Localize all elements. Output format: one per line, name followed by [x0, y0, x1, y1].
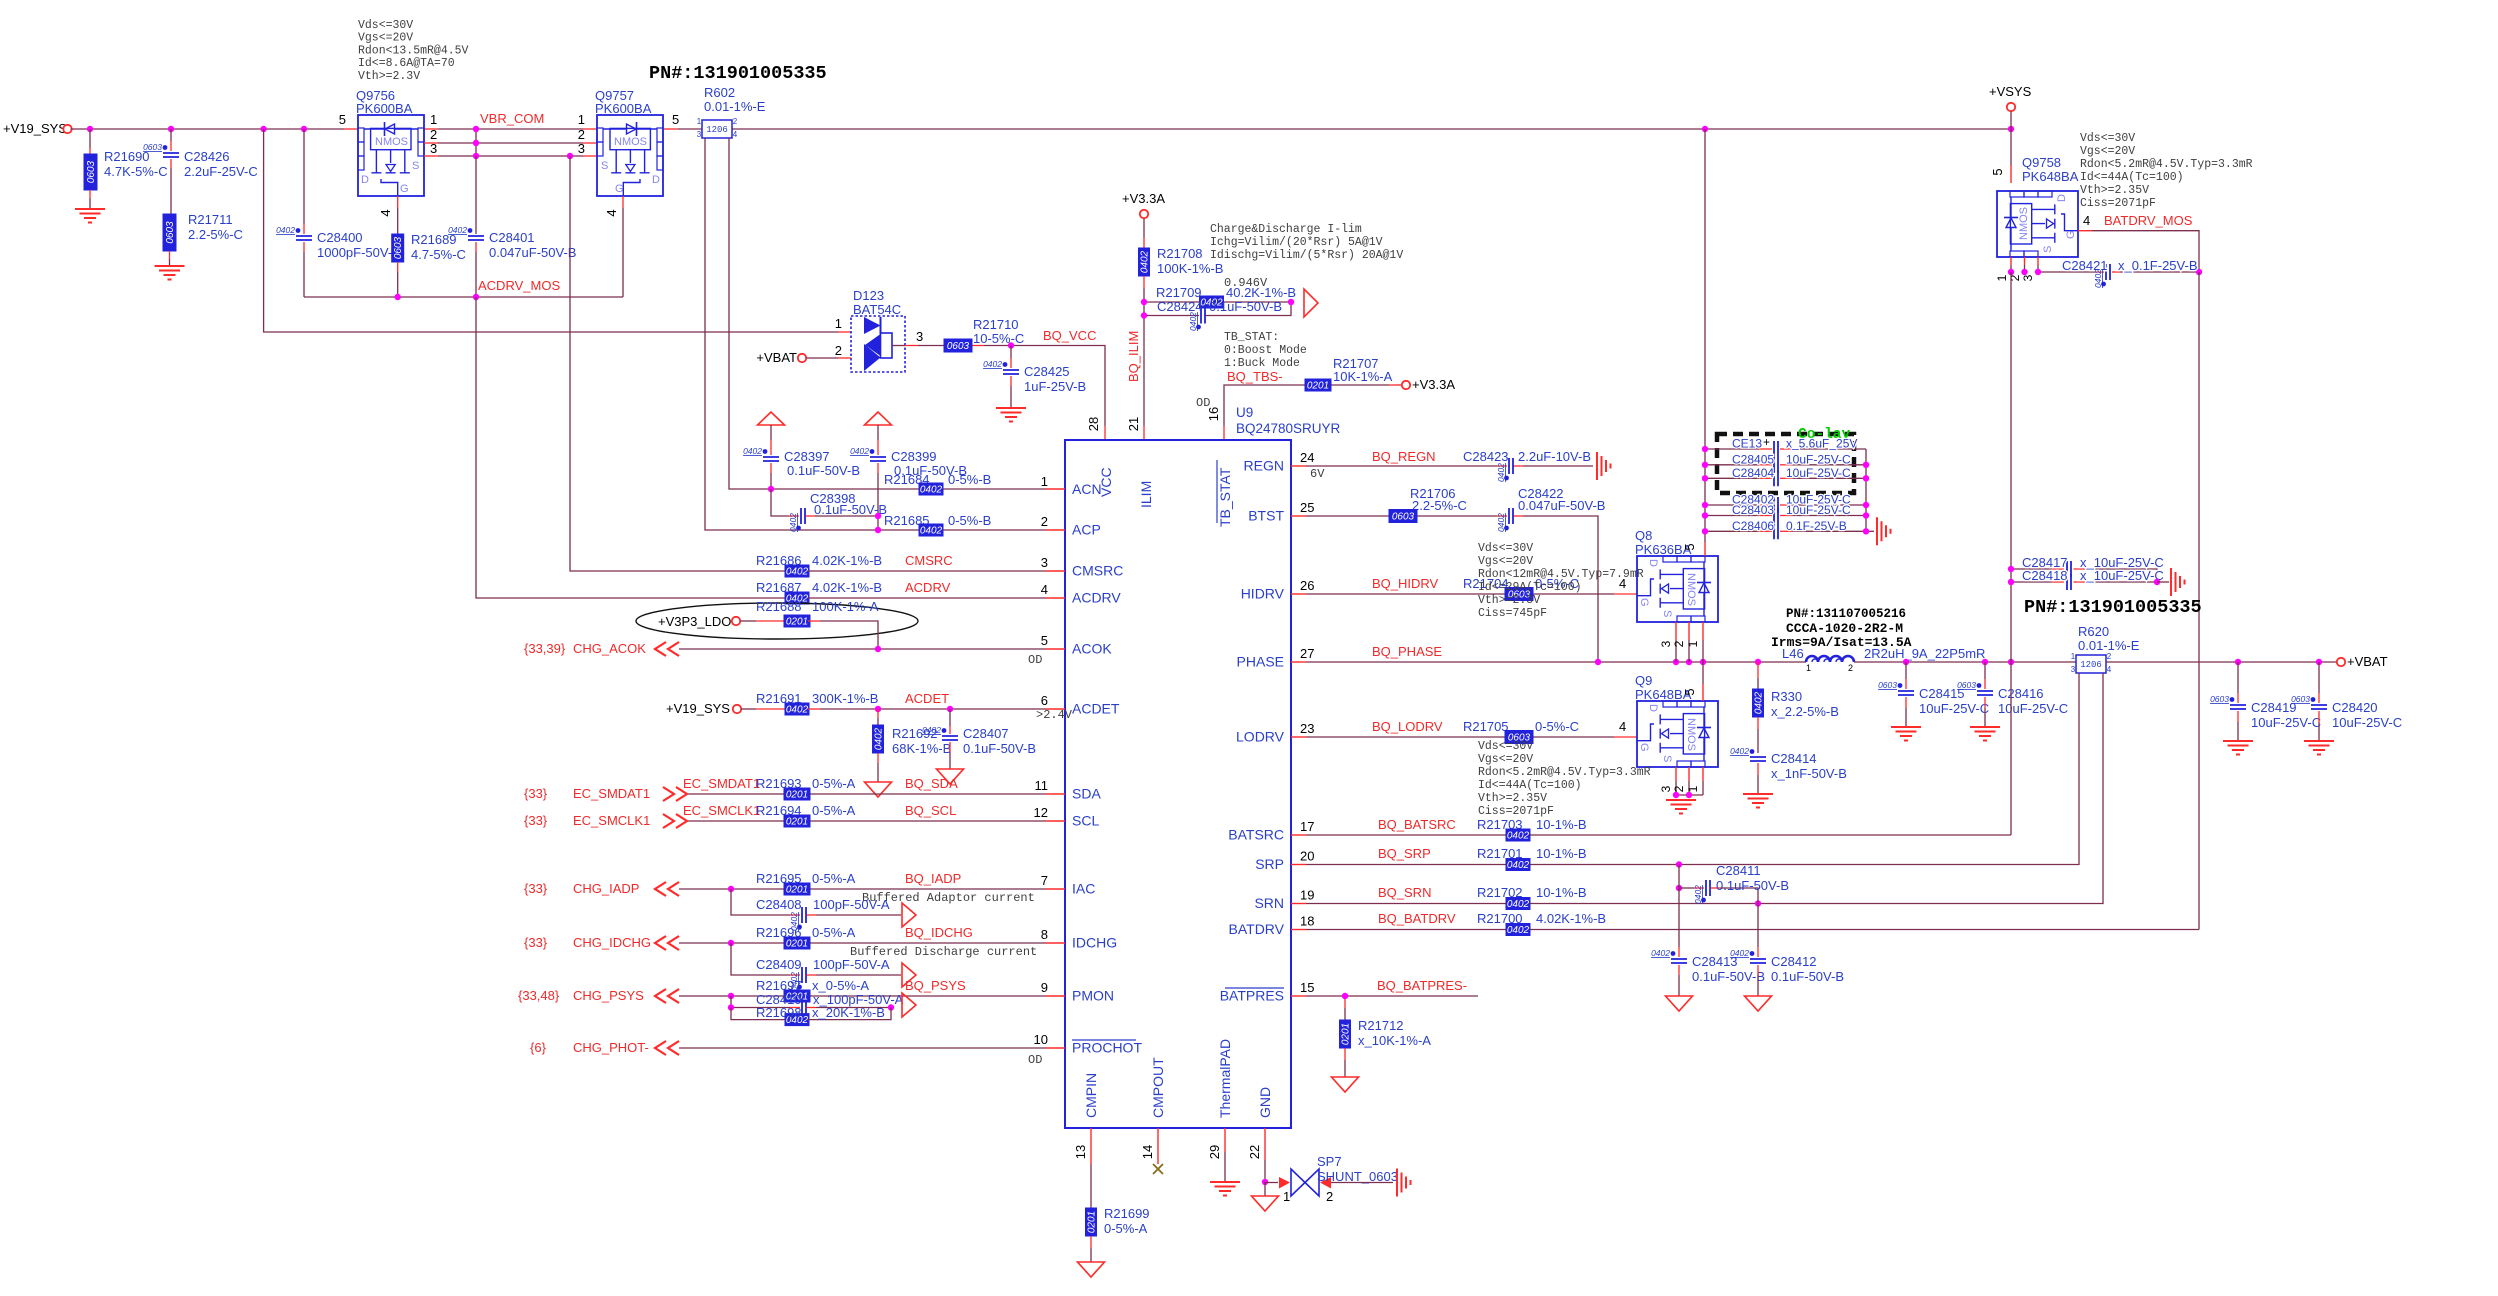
svg-text:C28407: C28407 — [963, 726, 1009, 741]
svg-text:R21709: R21709 — [1156, 285, 1202, 300]
svg-text:3: 3 — [2071, 665, 2076, 674]
svg-text:1: 1 — [1806, 663, 1811, 673]
svg-text:0603: 0603 — [86, 160, 97, 183]
svg-text:1: 1 — [835, 316, 842, 331]
svg-text:10uF-25V-C: 10uF-25V-C — [1786, 466, 1851, 480]
svg-text:1: 1 — [1686, 785, 1700, 792]
svg-text:R21712: R21712 — [1358, 1018, 1404, 1033]
svg-text:2: 2 — [2107, 652, 2112, 661]
svg-text:1: 1 — [578, 112, 585, 127]
wire CHG_ACOK to ACOK pin — [655, 642, 1046, 656]
svg-text:+V3P3_LDO: +V3P3_LDO — [658, 614, 731, 629]
svg-text:0.1uF-50V-B: 0.1uF-50V-B — [787, 463, 860, 478]
net label BQ_BATPRES- — [1377, 978, 1467, 993]
svg-text:8: 8 — [1041, 927, 1048, 942]
svg-text:CMPOUT: CMPOUT — [1150, 1057, 1166, 1118]
svg-text:0-5%-B: 0-5%-B — [948, 472, 991, 487]
arrow buffered discharge current — [902, 963, 916, 987]
svg-text:2: 2 — [1326, 1189, 1333, 1204]
wire cap bank right rail — [1866, 449, 1874, 531]
transistor spec note (Q9756/Q9757) — [358, 19, 469, 83]
capacitor C28416 — [1957, 662, 2068, 727]
svg-text:100K-1%-B: 100K-1%-B — [1157, 261, 1223, 276]
no-connect X at CMPOUT — [1153, 1128, 1163, 1174]
svg-text:OD: OD — [1028, 653, 1042, 667]
svg-text:2.2uF-10V-B: 2.2uF-10V-B — [1518, 449, 1591, 464]
svg-text:300K-1%-B: 300K-1%-B — [812, 691, 878, 706]
svg-text:9: 9 — [1041, 980, 1048, 995]
svg-text:0603: 0603 — [393, 236, 404, 259]
arrow output 0.946V node — [1304, 289, 1318, 317]
svg-text:C28412: C28412 — [1771, 954, 1817, 969]
wire +VSYS down to Q9758 — [2010, 129, 2012, 183]
resistor R21699 (CMPIN) — [1086, 1128, 1150, 1262]
capacitor C28400 — [276, 129, 401, 297]
wire BATDRV_MOS down to BATDRV row — [2198, 272, 2200, 930]
op-amp U9 BQ24780SRUYR charge controller IC body — [1065, 405, 1341, 1128]
capacitor C28404 — [1705, 466, 1866, 487]
svg-text:5: 5 — [1041, 633, 1048, 648]
capacitor C28423 — [1463, 449, 1591, 482]
resistor R21702 — [1477, 885, 1587, 910]
wire CHG_PSYS to PMON — [655, 989, 1046, 1003]
svg-text:0402: 0402 — [1754, 691, 1765, 714]
svg-text:0603: 0603 — [1957, 680, 1976, 690]
svg-text:1: 1 — [430, 112, 437, 127]
svg-text:0-5%-A: 0-5%-A — [1104, 1221, 1148, 1236]
wire R602 sense pin3 to ACP — [705, 138, 919, 530]
svg-text:PN#:131107005216: PN#:131107005216 — [1786, 607, 1906, 621]
svg-text:C28409: C28409 — [756, 957, 802, 972]
resistor R21700 — [1477, 911, 1606, 936]
junction dots C28410/R21698 — [728, 1004, 894, 1010]
capacitor C28418 — [2011, 568, 2164, 590]
svg-text:10uF-25V-C: 10uF-25V-C — [2332, 715, 2402, 730]
svg-text:C28405: C28405 — [1732, 452, 1774, 466]
net label CHG_PHOT- (off-page) — [530, 1040, 649, 1055]
arrow buffered adaptor current — [902, 903, 916, 927]
junction dots +VBAT — [2235, 659, 2322, 665]
wire TB_STAT to +V3.3A via R21707 — [1224, 385, 1402, 440]
svg-text:x_0.1F-25V-B: x_0.1F-25V-B — [2118, 258, 2198, 273]
wire R620 to +VBAT — [2106, 661, 2337, 663]
svg-text:24: 24 — [1300, 450, 1314, 465]
svg-text:100K-1%-A: 100K-1%-A — [812, 599, 879, 614]
svg-text:10-1%-B: 10-1%-B — [1536, 817, 1587, 832]
svg-text:+VSYS: +VSYS — [1989, 84, 2032, 99]
resistor R21696 — [756, 925, 856, 950]
net label BQ_VCC — [1043, 328, 1096, 343]
svg-text:0.047uF-50V-B: 0.047uF-50V-B — [1518, 498, 1605, 513]
svg-text:R21710: R21710 — [973, 317, 1019, 332]
svg-text:0603: 0603 — [2210, 694, 2229, 704]
net label BATDRV_MOS — [2104, 213, 2193, 228]
svg-text:Ciss=2071pF: Ciss=2071pF — [2080, 197, 2156, 210]
transistor spec note Q8 — [1478, 542, 1644, 620]
net label VBR_COM — [480, 111, 544, 126]
inductor L46 CCCA-1020-2R2-M — [1771, 607, 1985, 673]
resistor R21698 — [731, 1005, 891, 1026]
wire CHG_PHOT- to PROCHOT — [655, 1041, 1046, 1055]
svg-text:4: 4 — [733, 130, 738, 139]
svg-text:0402: 0402 — [1730, 948, 1749, 958]
ground below C28419 — [2223, 741, 2253, 755]
net label BQ_SRN — [1378, 885, 1431, 900]
svg-text:{33}: {33} — [524, 813, 548, 828]
svg-text:BTST: BTST — [1248, 508, 1284, 524]
svg-text:SRP: SRP — [1255, 856, 1284, 872]
svg-text:Id<=44A(Tc=100): Id<=44A(Tc=100) — [2080, 171, 2184, 184]
svg-text:x_10uF-25V-C: x_10uF-25V-C — [2080, 568, 2164, 583]
svg-text:BATPRES: BATPRES — [1220, 988, 1284, 1004]
svg-text:0201: 0201 — [786, 885, 808, 896]
svg-text:0201: 0201 — [1307, 381, 1329, 392]
svg-text:0.047uF-50V-B: 0.047uF-50V-B — [489, 245, 576, 260]
capacitor C28410 — [731, 992, 904, 1016]
wire BQ_SRP row — [1306, 864, 2030, 866]
svg-text:IDCHG: IDCHG — [1072, 935, 1117, 951]
svg-text:{6}: {6} — [530, 1040, 547, 1055]
svg-text:Vds<=30V: Vds<=30V — [2080, 132, 2135, 145]
capacitor CE13 (electrolytic) — [1705, 435, 1866, 457]
svg-text:+V19_SYS: +V19_SYS — [666, 701, 730, 716]
resistor R21687 (ACDRV) — [756, 580, 1046, 605]
resistor R21707 — [1305, 356, 1393, 392]
resistor R21710 — [944, 317, 1024, 352]
resistor R21694 — [756, 803, 856, 828]
svg-text:{33}: {33} — [524, 881, 548, 896]
svg-text:CMSRC: CMSRC — [905, 553, 953, 568]
svg-text:SDA: SDA — [1072, 786, 1101, 802]
svg-text:5: 5 — [1682, 688, 1697, 695]
svg-text:100pF-50V-A: 100pF-50V-A — [813, 957, 890, 972]
junction dots C28421 row — [2008, 269, 2202, 275]
capacitor C28414 — [1730, 746, 1847, 794]
svg-text:0402: 0402 — [1507, 925, 1530, 936]
svg-text:0402: 0402 — [448, 225, 467, 235]
ground below C28414 — [1743, 794, 1773, 808]
junction dots +V19_SYS rail — [87, 126, 2014, 132]
svg-text:1: 1 — [1995, 274, 2009, 281]
ground right of C28418 — [2171, 568, 2185, 596]
svg-text:11: 11 — [1035, 778, 1049, 793]
junction dots ACDET — [875, 706, 953, 712]
svg-text:3: 3 — [1659, 640, 1673, 647]
wire VBR source sense down to CMSRC row — [570, 156, 786, 571]
ground below R21690 — [75, 209, 105, 223]
svg-text:0402: 0402 — [1507, 831, 1530, 842]
svg-text:C28397: C28397 — [784, 449, 830, 464]
svg-text:5: 5 — [672, 112, 679, 127]
svg-text:C28424: C28424 — [1157, 299, 1203, 314]
svg-text:0-5%-A: 0-5%-A — [812, 776, 856, 791]
svg-text:14: 14 — [1140, 1145, 1155, 1159]
svg-text:{33}: {33} — [524, 935, 548, 950]
svg-text:BQ24780SRUYR: BQ24780SRUYR — [1236, 421, 1341, 436]
svg-text:+: + — [1763, 435, 1770, 449]
net label BQ_ILIM (vertical) — [1126, 331, 1141, 382]
svg-text:BQ_SRP: BQ_SRP — [1378, 846, 1431, 861]
svg-text:1uF-25V-B: 1uF-25V-B — [1024, 379, 1086, 394]
net label BQ_BATDRV — [1378, 911, 1456, 926]
svg-text:PMON: PMON — [1072, 988, 1114, 1004]
title PN#:131901005335 (right) — [2024, 597, 2202, 618]
resistor R21701 — [1477, 846, 1587, 871]
wire ACDRV_MOS down to ACDRV pin row — [476, 297, 786, 598]
svg-text:Charge&Discharge I-lim: Charge&Discharge I-lim — [1210, 223, 1362, 236]
capacitor C28403 — [1705, 503, 1866, 524]
resistor R330 — [1753, 662, 1839, 753]
svg-text:x_2.2-5%-B: x_2.2-5%-B — [1771, 704, 1839, 719]
svg-text:C28420: C28420 — [2332, 700, 2378, 715]
svg-text:C28423: C28423 — [1463, 449, 1509, 464]
svg-text:1: 1 — [1041, 474, 1048, 489]
svg-text:4.02K-1%-B: 4.02K-1%-B — [812, 580, 882, 595]
svg-text:Vgs<=20V: Vgs<=20V — [2080, 145, 2135, 158]
capacitor C28399 with power arrow — [850, 412, 967, 530]
capacitor C28421 — [2062, 258, 2198, 288]
resistor R21695 — [756, 871, 856, 896]
svg-text:23: 23 — [1300, 721, 1314, 736]
svg-text:IAC: IAC — [1072, 881, 1095, 897]
svg-text:10-1%-B: 10-1%-B — [1536, 846, 1587, 861]
svg-text:0603: 0603 — [1878, 680, 1897, 690]
svg-text:BQ_HIDRV: BQ_HIDRV — [1372, 576, 1439, 591]
svg-text:0402: 0402 — [874, 727, 885, 750]
pin number labels U9 left — [1028, 474, 1073, 1067]
net label BQ_REGN — [1372, 449, 1436, 464]
svg-text:40.2K-1%-B: 40.2K-1%-B — [1226, 285, 1296, 300]
svg-text:17: 17 — [1300, 819, 1314, 834]
svg-text:3: 3 — [697, 130, 702, 139]
svg-text:100pF-50V-A: 100pF-50V-A — [813, 897, 890, 912]
wire +VSYS rail down to cap bank and Q8 drain — [1704, 129, 1706, 556]
capacitor C28397 with power arrow — [743, 412, 860, 489]
svg-text:C28419: C28419 — [2251, 700, 2297, 715]
svg-text:OD: OD — [1028, 1053, 1042, 1067]
wire CHG_IADP to IAC — [655, 882, 1046, 896]
svg-text:BQ_SRN: BQ_SRN — [1378, 885, 1431, 900]
resistor R21709 — [1144, 285, 1296, 309]
svg-text:Q8: Q8 — [1635, 528, 1652, 543]
svg-text:BQ_LODRV: BQ_LODRV — [1372, 719, 1443, 734]
svg-text:Id<=29A(Tc=100): Id<=29A(Tc=100) — [1478, 581, 1582, 594]
svg-text:Rdon<5.2mR@4.5V.Typ=3.3mR: Rdon<5.2mR@4.5V.Typ=3.3mR — [2080, 158, 2253, 171]
svg-text:VBR_COM: VBR_COM — [480, 111, 544, 126]
svg-text:6V: 6V — [1310, 467, 1325, 481]
net labels SCL row — [524, 803, 956, 828]
svg-text:EC_SMCLK1: EC_SMCLK1 — [683, 803, 760, 818]
resistor R21686 (CMSRC) — [756, 553, 1046, 578]
svg-text:0201: 0201 — [786, 817, 808, 828]
svg-text:C28404: C28404 — [1732, 466, 1774, 480]
svg-text:C28406: C28406 — [1732, 519, 1774, 533]
svg-text:Vds<=30V: Vds<=30V — [1478, 542, 1533, 555]
ground right of cap bank — [1877, 517, 1891, 545]
svg-text:22: 22 — [1247, 1145, 1262, 1159]
svg-text:BQ_SDA: BQ_SDA — [905, 776, 958, 791]
svg-text:16: 16 — [1206, 407, 1221, 421]
svg-text:ACP: ACP — [1072, 522, 1101, 538]
svg-text:x_1nF-50V-B: x_1nF-50V-B — [1771, 766, 1847, 781]
svg-text:REGN: REGN — [1244, 458, 1284, 474]
svg-text:PK600BA: PK600BA — [356, 101, 413, 116]
svg-text:0402: 0402 — [743, 446, 762, 456]
svg-text:2: 2 — [1672, 785, 1686, 792]
svg-text:1206: 1206 — [2080, 660, 2102, 670]
svg-text:CCCA-1020-2R2-M: CCCA-1020-2R2-M — [1786, 621, 1903, 636]
svg-text:R21688: R21688 — [756, 599, 802, 614]
capacitor C28401 — [448, 156, 576, 297]
svg-text:0402: 0402 — [983, 359, 1002, 369]
ground at ThermalPAD — [1210, 1128, 1240, 1196]
svg-text:5: 5 — [1682, 543, 1697, 550]
capacitor C28424 — [1144, 299, 1291, 331]
svg-text:x_20K-1%-B: x_20K-1%-B — [812, 1005, 885, 1020]
net label BQ_BATSRC — [1378, 817, 1456, 832]
svg-text:28: 28 — [1086, 417, 1101, 431]
co-lay dashed group box — [1717, 427, 1854, 493]
svg-text:0402: 0402 — [1140, 250, 1151, 273]
junction dots SRP/SRN branches — [1676, 861, 1761, 906]
net label ACDRV — [905, 580, 951, 595]
svg-text:0.1F-25V-B: 0.1F-25V-B — [1786, 519, 1847, 533]
svg-text:R620: R620 — [2078, 624, 2109, 639]
capacitor C28415 — [1878, 662, 1989, 727]
svg-text:C28411: C28411 — [1716, 863, 1761, 878]
svg-text:0402: 0402 — [920, 485, 943, 496]
wire BQ_REGN row — [1306, 465, 1593, 467]
svg-text:1000pF-50V-B: 1000pF-50V-B — [317, 245, 401, 260]
ground below C28416 — [1970, 727, 2000, 741]
svg-text:0-5%-A: 0-5%-A — [812, 803, 856, 818]
svg-text:2.2uF-25V-C: 2.2uF-25V-C — [184, 164, 258, 179]
node +VBAT output — [2337, 654, 2388, 669]
svg-text:Id<=8.6A@TA=70: Id<=8.6A@TA=70 — [358, 57, 455, 70]
svg-text:1: 1 — [697, 117, 702, 126]
svg-text:CHG_ACOK: CHG_ACOK — [573, 641, 646, 656]
net label BQ_HIDRV — [1372, 576, 1439, 591]
ground below R21711 — [155, 266, 185, 280]
svg-text:68K-1%-B: 68K-1%-B — [892, 741, 951, 756]
svg-text:{33,48}: {33,48} — [518, 988, 560, 1003]
wire BQ_BATSRC row — [1306, 834, 2011, 836]
junction dots ACDRV_MOS — [395, 294, 480, 300]
svg-text:2.2-5%-C: 2.2-5%-C — [188, 227, 243, 242]
svg-text:Vgs<=20V: Vgs<=20V — [358, 32, 413, 45]
svg-text:BQ_PSYS: BQ_PSYS — [905, 978, 966, 993]
svg-text:{33}: {33} — [524, 786, 548, 801]
svg-text:SCL: SCL — [1072, 813, 1099, 829]
svg-text:ILIM: ILIM — [1138, 481, 1154, 508]
svg-text:SP7: SP7 — [1317, 1154, 1342, 1169]
arrow BQ_PSYS buffer — [902, 993, 916, 1017]
svg-text:PHASE: PHASE — [1237, 654, 1284, 670]
svg-text:Vth>=2.35V: Vth>=2.35V — [1478, 792, 1547, 805]
wire Q9 source pins to ground — [1659, 767, 1703, 798]
net labels IDCHG row — [524, 925, 1037, 959]
junction dots ILIM divider — [1141, 299, 1294, 319]
svg-text:PK648BA: PK648BA — [2022, 169, 2079, 184]
svg-text:10uF-25V-C: 10uF-25V-C — [1998, 701, 2068, 716]
svg-text:0402: 0402 — [922, 725, 941, 735]
svg-text:Vds<=30V: Vds<=30V — [358, 19, 413, 32]
svg-text:ACDET: ACDET — [905, 691, 949, 706]
svg-text:BQ_BATPRES-: BQ_BATPRES- — [1377, 978, 1467, 993]
svg-text:Ichg=Vilim/(20*Rsr) 5A@1V: Ichg=Vilim/(20*Rsr) 5A@1V — [1210, 236, 1383, 249]
svg-text:R21708: R21708 — [1157, 246, 1203, 261]
node +V3.3A at R21707 — [1402, 377, 1456, 392]
transistor spec note Q9758 — [2080, 132, 2253, 210]
svg-text:4.7-5%-C: 4.7-5%-C — [411, 247, 466, 262]
svg-text:BQ_BATDRV: BQ_BATDRV — [1378, 911, 1456, 926]
wire Q8 source pins to PHASE — [1659, 622, 1703, 662]
svg-text:LODRV: LODRV — [1236, 729, 1285, 745]
resistor R21704 — [1463, 576, 1626, 601]
junction dots BQ_PHASE — [1595, 659, 1761, 665]
svg-text:Q9758: Q9758 — [2022, 155, 2061, 170]
svg-text:PN#:131901005335: PN#:131901005335 — [2024, 597, 2202, 618]
svg-text:GND: GND — [1257, 1087, 1273, 1118]
svg-text:C28416: C28416 — [1998, 686, 2044, 701]
svg-text:10uF-25V-C: 10uF-25V-C — [2251, 715, 2321, 730]
resistor R21684 (ACN) — [884, 472, 1046, 496]
ground below Q9 — [1666, 800, 1696, 814]
svg-text:4.7K-5%-C: 4.7K-5%-C — [104, 164, 168, 179]
svg-text:BQ_SCL: BQ_SCL — [905, 803, 956, 818]
svg-text:0-5%-A: 0-5%-A — [812, 871, 856, 886]
pin stubs U9 right side — [1291, 466, 1306, 996]
wire +V19_SYS main rail — [71, 128, 2012, 130]
wire PHASE/inductor output to R620 — [1854, 661, 2076, 663]
svg-text:10uF-25V-C: 10uF-25V-C — [1786, 452, 1851, 466]
svg-text:4: 4 — [2107, 665, 2112, 674]
svg-text:BQ_VCC: BQ_VCC — [1043, 328, 1096, 343]
svg-text:6: 6 — [1041, 693, 1048, 708]
svg-text:10uF-25V-C: 10uF-25V-C — [1919, 701, 1989, 716]
junction dot IAC — [728, 886, 734, 892]
ground below R21699 — [1078, 1262, 1105, 1277]
ground right of SP7 — [1397, 1169, 1411, 1197]
junction dot PMON — [728, 993, 734, 999]
node +V19_SYS input — [3, 121, 72, 136]
svg-text:BQ_BATSRC: BQ_BATSRC — [1378, 817, 1456, 832]
svg-text:5: 5 — [339, 112, 346, 127]
svg-text:PN#:131901005335: PN#:131901005335 — [649, 63, 827, 84]
junction dots C28417/C28418 — [2008, 566, 2160, 585]
wire to ground after C28418 — [2157, 581, 2169, 583]
svg-text:BQ_ILIM: BQ_ILIM — [1126, 331, 1141, 382]
transistor Q9756 PK600BA — [339, 88, 437, 217]
svg-text:PK600BA: PK600BA — [595, 101, 652, 116]
svg-text:BATSRC: BATSRC — [1228, 827, 1284, 843]
pin number labels U9 right — [1300, 450, 1325, 995]
svg-text:2: 2 — [1672, 640, 1686, 647]
svg-text:CHG_IADP: CHG_IADP — [573, 881, 639, 896]
svg-text:+V3.3A: +V3.3A — [1122, 191, 1165, 206]
svg-text:BATDRV_MOS: BATDRV_MOS — [2104, 213, 2193, 228]
note Charge&Discharge I-lim — [1210, 223, 1403, 262]
svg-text:0-5%-A: 0-5%-A — [812, 925, 856, 940]
ground below C28415 — [1891, 727, 1921, 741]
svg-text:20: 20 — [1300, 849, 1314, 864]
capacitor C28419 — [2210, 662, 2321, 741]
note 0.946V — [1224, 276, 1268, 290]
svg-text:C28425: C28425 — [1024, 364, 1070, 379]
svg-text:BQ_IADP: BQ_IADP — [905, 871, 961, 886]
svg-text:2: 2 — [430, 127, 437, 142]
net label BQ_SRP — [1378, 846, 1431, 861]
